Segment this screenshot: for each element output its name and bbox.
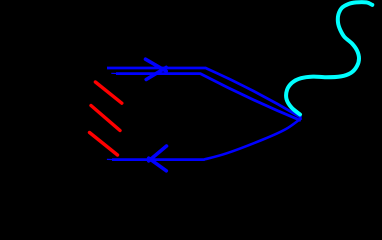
red dash 3 (90, 133, 118, 156)
heavy quark double line: lower stroke lead-in (111, 72, 117, 74)
arrow on double line: upper wing (146, 59, 167, 71)
red dash 1 (95, 82, 121, 103)
lower quark horizontal line (112, 158, 205, 161)
red dash 2 (91, 106, 120, 131)
heavy quark double line: upper stroke (107, 68, 302, 118)
lower quark diagonal leg (204, 118, 301, 159)
arrow on lower line: upper wing (149, 146, 167, 161)
arrow on double line: lower wing (146, 67, 166, 79)
arrow on lower line: lower wing (149, 158, 167, 171)
lower quark horizontal line lead-in (107, 158, 113, 160)
heavy quark double line: lower stroke (116, 74, 301, 121)
photon wavy line (286, 2, 372, 114)
